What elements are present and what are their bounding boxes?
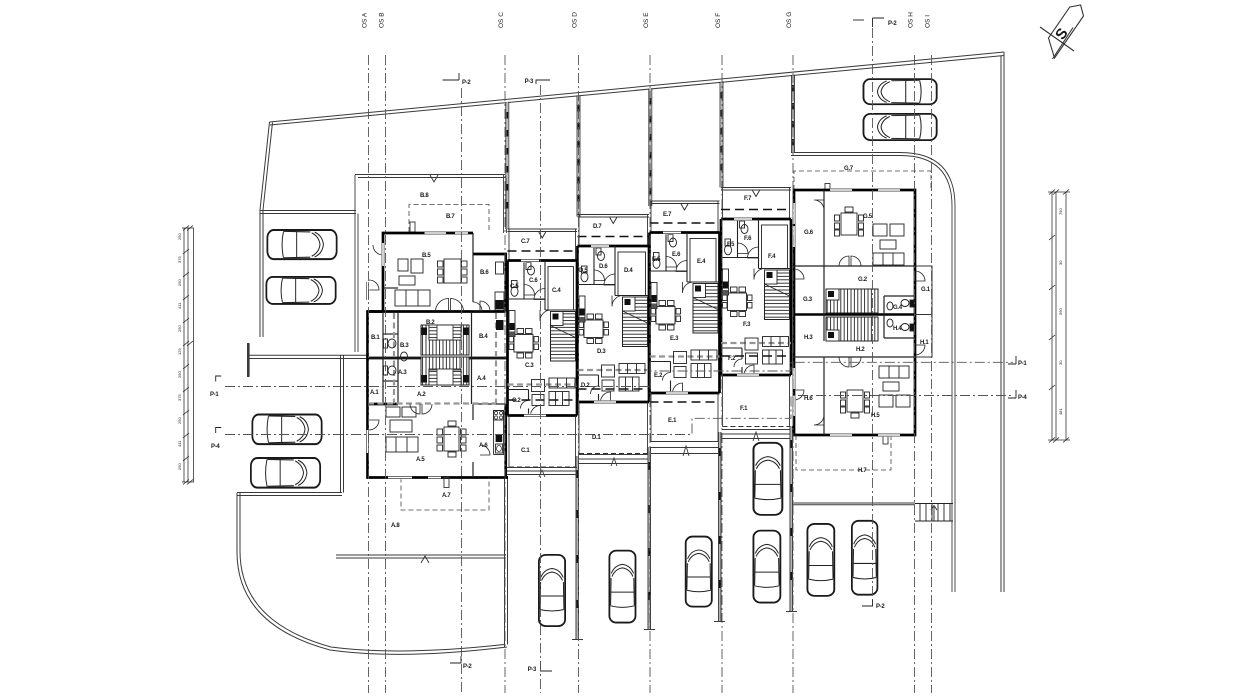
scale bar numbers west xyxy=(177,233,182,470)
terrace bold dashed line xyxy=(578,236,650,238)
parking wall x=649 xyxy=(647,447,649,630)
D.1 terrace xyxy=(579,402,648,454)
svg-text:G.7: G.7 xyxy=(844,166,854,172)
retaining T-wall y=352 xyxy=(248,354,368,356)
F.7 terrace xyxy=(721,188,791,220)
svg-text:F.3: F.3 xyxy=(743,322,751,328)
svg-text:411: 411 xyxy=(177,302,182,309)
strip E outer walls xyxy=(650,233,720,394)
svg-text:OS F: OS F xyxy=(715,13,722,28)
axis OS A xyxy=(368,55,370,693)
svg-text:E.7: E.7 xyxy=(663,212,672,218)
marker P-4 left xyxy=(216,428,222,434)
car west 1 xyxy=(267,230,336,259)
marker P-2 top-right xyxy=(853,19,864,21)
section line P-3 xyxy=(540,85,542,693)
terrace bold dashed line xyxy=(650,222,720,224)
svg-text:P-2: P-2 xyxy=(876,604,885,610)
D door arcs bath xyxy=(594,270,605,281)
H.5 dining table xyxy=(841,390,870,418)
svg-text:C.2: C.2 xyxy=(512,398,521,404)
insulation dashes on north walls xyxy=(507,85,793,209)
svg-text:E.4: E.4 xyxy=(697,259,706,265)
F bottom door arc xyxy=(744,365,754,375)
chimney A xyxy=(444,478,449,488)
svg-text:750: 750 xyxy=(1058,208,1063,215)
section line P-4 horizontal xyxy=(225,396,1013,435)
svg-text:H.1: H.1 xyxy=(920,340,929,346)
insulation ticks on parking walls xyxy=(577,440,791,608)
svg-text:F.4: F.4 xyxy=(768,254,776,260)
C kitchen fixtures xyxy=(509,311,515,337)
kitchen A.6 dark fixtures xyxy=(494,411,504,455)
F gray dashed floor-above line xyxy=(721,342,791,344)
svg-text:250: 250 xyxy=(177,233,182,240)
svg-text:H.7: H.7 xyxy=(858,468,867,474)
north wall ext x=721.5 xyxy=(720,81,723,187)
E door arcs bath xyxy=(666,257,677,268)
west boundary double line xyxy=(260,122,270,337)
B.5 armchairs xyxy=(398,259,423,285)
svg-text:A.7: A.7 xyxy=(442,493,451,499)
B.5 door arcs xyxy=(436,299,449,312)
bold dashed overhang lines strips xyxy=(508,356,792,402)
E TV + sofa xyxy=(674,350,718,378)
G.6 door arc xyxy=(814,200,824,210)
east walk top y=503.5 xyxy=(793,502,915,504)
chimney H xyxy=(883,435,888,444)
svg-text:G.3: G.3 xyxy=(803,297,813,303)
north boundary double line xyxy=(270,52,1005,122)
svg-text:A.3: A.3 xyxy=(398,370,407,376)
svg-text:B.6: B.6 xyxy=(480,270,489,276)
svg-text:G.1: G.1 xyxy=(921,287,931,293)
axis OS I xyxy=(931,55,933,693)
svg-text:D.6: D.6 xyxy=(599,264,608,270)
car west 2 xyxy=(266,277,335,304)
marker P-1 left xyxy=(216,376,222,382)
svg-text:G.4: G.4 xyxy=(893,305,903,311)
svg-text:B.3: B.3 xyxy=(400,343,409,349)
marker P-3 top xyxy=(536,80,550,84)
svg-text:A.2: A.2 xyxy=(417,392,426,398)
svg-text:D.5: D.5 xyxy=(579,268,588,274)
svg-text:G.6: G.6 xyxy=(804,230,814,236)
unit A outer walls xyxy=(368,358,509,478)
C hall door arc xyxy=(540,310,551,321)
walk arrow courtyard xyxy=(421,556,429,563)
courtyard curve boundary xyxy=(237,493,507,654)
chimney G xyxy=(825,184,830,191)
F hall door arc xyxy=(754,269,765,280)
yard wall horizontal y=175 xyxy=(355,174,505,176)
car south 3 xyxy=(686,537,712,607)
marker P-4 right xyxy=(1008,390,1016,398)
strip C interior walls xyxy=(508,261,578,311)
G.7 dashed roof xyxy=(794,171,931,190)
A.5 door arcs xyxy=(410,404,420,414)
svg-text:A.6: A.6 xyxy=(479,443,488,449)
yard wall west-east at y=211 xyxy=(260,210,356,212)
svg-text:D.3: D.3 xyxy=(597,349,606,355)
yard wall vertical x=505 down to C.7 xyxy=(503,175,505,234)
E bottom door arc xyxy=(673,383,683,393)
car south 1 xyxy=(539,555,565,626)
car west 3 xyxy=(252,415,321,445)
floor-above gray dashed outline A/B xyxy=(368,313,496,404)
strip E interior walls xyxy=(650,233,720,283)
axis OS C xyxy=(504,55,506,693)
svg-text:H.4: H.4 xyxy=(893,326,902,332)
section line P-2 left xyxy=(461,88,463,693)
C TV + sofa xyxy=(532,378,576,406)
F dining table xyxy=(723,287,753,317)
svg-text:30: 30 xyxy=(1058,360,1063,365)
north wall ext x=578.5 xyxy=(577,95,580,217)
svg-text:C.6: C.6 xyxy=(529,278,538,284)
D dining table xyxy=(579,314,609,344)
courtyard wall x=342 xyxy=(340,355,342,493)
E.1 terrace xyxy=(651,393,718,442)
unit B outer walls xyxy=(368,233,508,358)
car NE 1 xyxy=(863,79,936,104)
F.2 room xyxy=(721,348,742,375)
E kitchen fixtures xyxy=(651,283,657,309)
H.5 sofas xyxy=(879,366,910,407)
svg-text:C.5: C.5 xyxy=(510,284,519,290)
E.7 terrace xyxy=(650,201,720,233)
D.2 room xyxy=(578,375,599,402)
svg-text:D.7: D.7 xyxy=(593,224,602,230)
parking wall x=577 xyxy=(575,456,577,640)
E hall door arc xyxy=(683,282,694,293)
entry walk D xyxy=(579,454,649,456)
svg-text:P-3: P-3 xyxy=(528,667,537,673)
car NE 2 xyxy=(863,114,936,140)
D.7 terrace xyxy=(578,215,650,247)
svg-text:F.1: F.1 xyxy=(740,406,748,412)
D bathroom fixtures xyxy=(581,248,605,282)
stairs B (U-shape) xyxy=(421,325,469,355)
marker P-3 bottom xyxy=(541,663,553,671)
axis OS F xyxy=(721,55,723,693)
G/H entry door arcs xyxy=(794,269,804,279)
C bottom door arc xyxy=(531,406,541,416)
stairs on east walk xyxy=(915,504,953,522)
B.7 roof dashed box xyxy=(409,205,489,233)
svg-text:P-4: P-4 xyxy=(1018,395,1027,401)
F kitchen fixtures xyxy=(723,269,729,295)
D bottom door arc xyxy=(601,392,611,402)
C bathroom fixtures xyxy=(511,263,535,297)
svg-text:B.1: B.1 xyxy=(371,335,380,341)
bathroom A.3 fixtures xyxy=(384,366,397,375)
unit A interior walls xyxy=(383,358,506,478)
marker P-2 bottom-right xyxy=(862,599,873,606)
svg-text:375: 375 xyxy=(177,394,182,401)
G.5 dining table xyxy=(835,207,864,236)
stairs E xyxy=(693,284,718,334)
G/H interior walls xyxy=(794,190,915,435)
stairs D xyxy=(623,297,648,347)
north wall ext x=507 xyxy=(506,102,509,229)
stairs F xyxy=(765,270,790,320)
kitchen B.6 dark fixtures xyxy=(495,262,504,330)
axis OS E xyxy=(649,55,651,693)
parking wall x=719.5 xyxy=(718,432,720,622)
north wall ext x=793 xyxy=(792,75,795,153)
car west 4 xyxy=(251,458,320,488)
car south 7 xyxy=(852,521,878,595)
svg-text:P-1: P-1 xyxy=(1018,361,1027,367)
marker P-2 top-left xyxy=(443,73,460,80)
svg-text:250: 250 xyxy=(177,371,182,378)
svg-text:A.5: A.5 xyxy=(416,457,425,463)
section line P-2 right xyxy=(872,28,874,600)
svg-text:C.3: C.3 xyxy=(525,363,534,369)
svg-text:H.5: H.5 xyxy=(871,413,880,419)
east boundary vertical xyxy=(1003,52,1005,592)
stairs H xyxy=(826,317,878,341)
H double door arcs xyxy=(839,357,849,367)
svg-text:C.7: C.7 xyxy=(521,239,530,245)
C.1 terrace xyxy=(509,416,576,468)
bathroom B.3 fixtures xyxy=(384,339,408,361)
north wall ext x=650 xyxy=(649,88,652,206)
svg-text:F.6: F.6 xyxy=(744,236,752,242)
NE driveway edge with curve xyxy=(791,153,955,593)
C dining table xyxy=(509,329,539,359)
svg-text:H.2: H.2 xyxy=(856,347,865,353)
svg-text:P-2: P-2 xyxy=(888,21,897,27)
svg-text:A.4: A.4 xyxy=(477,376,486,382)
svg-text:OS D: OS D xyxy=(572,12,579,28)
terrace arrow xyxy=(610,218,617,224)
terrace bold dashed line xyxy=(508,250,578,252)
F door arcs bath xyxy=(738,243,749,254)
svg-text:P-4: P-4 xyxy=(211,444,220,450)
courtyard wall y=556 xyxy=(336,554,506,556)
C.7 terrace xyxy=(508,229,578,261)
svg-text:D.1: D.1 xyxy=(592,435,601,441)
svg-text:B.8: B.8 xyxy=(420,193,429,199)
svg-text:G.2: G.2 xyxy=(858,277,868,283)
strip C outer walls xyxy=(508,261,578,416)
svg-text:250: 250 xyxy=(177,463,182,470)
svg-text:OS A: OS A xyxy=(362,12,369,28)
D hall door arc xyxy=(612,296,623,307)
D kitchen fixtures xyxy=(579,296,585,322)
svg-text:C.1: C.1 xyxy=(521,448,530,454)
entry walk E xyxy=(651,441,719,443)
svg-text:B.4: B.4 xyxy=(479,334,488,340)
svg-text:250: 250 xyxy=(177,417,182,424)
svg-text:481: 481 xyxy=(1058,408,1063,415)
car south 4 xyxy=(753,531,780,603)
axis OS H xyxy=(914,55,916,693)
strip D interior walls xyxy=(578,246,650,296)
axis OS G xyxy=(792,55,794,693)
B.5 dining table xyxy=(438,259,468,283)
svg-text:D.4: D.4 xyxy=(624,268,633,274)
terrace arrow xyxy=(753,191,760,197)
C.2 room xyxy=(508,390,529,416)
axis labels top xyxy=(362,12,932,28)
svg-text:P-1: P-1 xyxy=(210,392,219,398)
svg-text:E.3: E.3 xyxy=(670,336,679,342)
svg-text:P-3: P-3 xyxy=(525,79,534,85)
yard wall vertical x=356 xyxy=(354,175,356,352)
svg-text:375: 375 xyxy=(177,256,182,263)
H.7 dashed terrace xyxy=(796,435,891,470)
stairs G xyxy=(826,289,878,313)
marker P-2 bottom-left xyxy=(450,656,461,663)
svg-text:C.4: C.4 xyxy=(552,288,561,294)
B.5 sofa xyxy=(395,290,430,306)
E gray dashed floor-above line xyxy=(650,355,720,357)
svg-text:B.2: B.2 xyxy=(426,320,435,326)
svg-text:E.6: E.6 xyxy=(672,252,681,258)
axis OS D xyxy=(578,55,580,693)
G/H outer walls xyxy=(794,190,915,435)
E.2 room xyxy=(650,362,671,394)
svg-text:30: 30 xyxy=(1058,260,1063,265)
svg-text:OS I: OS I xyxy=(925,15,932,28)
svg-text:OS E: OS E xyxy=(643,12,650,28)
terrace bold dashed line xyxy=(721,209,791,211)
svg-text:OS C: OS C xyxy=(498,12,505,28)
chimney B xyxy=(410,222,415,232)
unit B interior walls xyxy=(369,233,506,358)
G/H party wall xyxy=(794,313,915,316)
car south 6 xyxy=(807,524,834,596)
D gray dashed floor-above line xyxy=(578,369,650,371)
svg-text:129: 129 xyxy=(177,348,182,355)
svg-text:560: 560 xyxy=(1058,308,1063,315)
entry walk C xyxy=(507,430,791,478)
svg-text:A.1: A.1 xyxy=(370,390,379,396)
svg-text:B.5: B.5 xyxy=(422,253,431,259)
G.5 sofas xyxy=(873,224,904,265)
scale bar numbers east xyxy=(1058,208,1063,415)
svg-text:F.5: F.5 xyxy=(727,242,735,248)
svg-text:H.3: H.3 xyxy=(804,335,813,341)
svg-text:G.5: G.5 xyxy=(863,214,873,220)
svg-text:E.5: E.5 xyxy=(652,257,661,263)
F TV + sofa xyxy=(745,337,789,365)
terrace arrow xyxy=(539,232,546,238)
svg-text:E.2: E.2 xyxy=(654,373,663,379)
axis OS B xyxy=(385,55,387,693)
terrace arrow xyxy=(681,204,688,210)
strip F interior walls xyxy=(721,219,791,269)
A.7 dashed terrace box xyxy=(401,478,489,511)
G toilets xyxy=(887,300,914,332)
svg-text:H.6: H.6 xyxy=(804,396,813,402)
svg-text:F.7: F.7 xyxy=(744,196,752,202)
strip F outer walls xyxy=(721,219,791,375)
C gray dashed floor-above line xyxy=(508,383,578,385)
section line P-1 horizontal xyxy=(225,362,1013,386)
A.5 sofa set xyxy=(386,407,418,452)
svg-text:E.1: E.1 xyxy=(668,418,677,424)
svg-text:D.2: D.2 xyxy=(581,383,590,389)
parking wall x=791 xyxy=(789,426,791,612)
entry arrow on north yard xyxy=(430,175,438,182)
entry walk F xyxy=(722,429,790,431)
strip D outer walls xyxy=(578,246,650,402)
svg-text:250: 250 xyxy=(177,325,182,332)
svg-text:P-2: P-2 xyxy=(462,80,471,86)
door arcs B left wall xyxy=(369,280,379,290)
svg-text:F.2: F.2 xyxy=(728,356,736,362)
svg-text:411: 411 xyxy=(177,440,182,447)
courtyard wall y=493 xyxy=(237,492,342,494)
D TV + sofa xyxy=(602,364,646,392)
E dining table xyxy=(651,301,681,331)
E bathroom fixtures xyxy=(653,235,677,269)
F bathroom fixtures xyxy=(725,221,749,255)
F.1 terrace xyxy=(723,375,790,427)
svg-text:OS B: OS B xyxy=(379,12,386,28)
marker P-1 right xyxy=(1008,356,1016,364)
C door arcs bath xyxy=(524,285,535,296)
svg-text:A.8: A.8 xyxy=(391,523,400,529)
car south 2 xyxy=(609,551,635,623)
G/H east corridor xyxy=(915,266,932,357)
stairs C xyxy=(551,312,576,362)
car south 5 upper xyxy=(753,443,782,515)
courtyard wall x=506 xyxy=(504,476,506,647)
windows on exterior walls xyxy=(366,188,900,479)
svg-text:OS H: OS H xyxy=(908,12,915,28)
stairs A (U-shape) xyxy=(421,357,469,385)
svg-text:B.7: B.7 xyxy=(446,214,455,220)
svg-text:OS G: OS G xyxy=(786,12,793,28)
svg-text:250: 250 xyxy=(177,279,182,286)
svg-text:P-2: P-2 xyxy=(463,664,472,670)
A.5 dining table xyxy=(437,421,466,457)
G double door arcs xyxy=(839,256,849,266)
